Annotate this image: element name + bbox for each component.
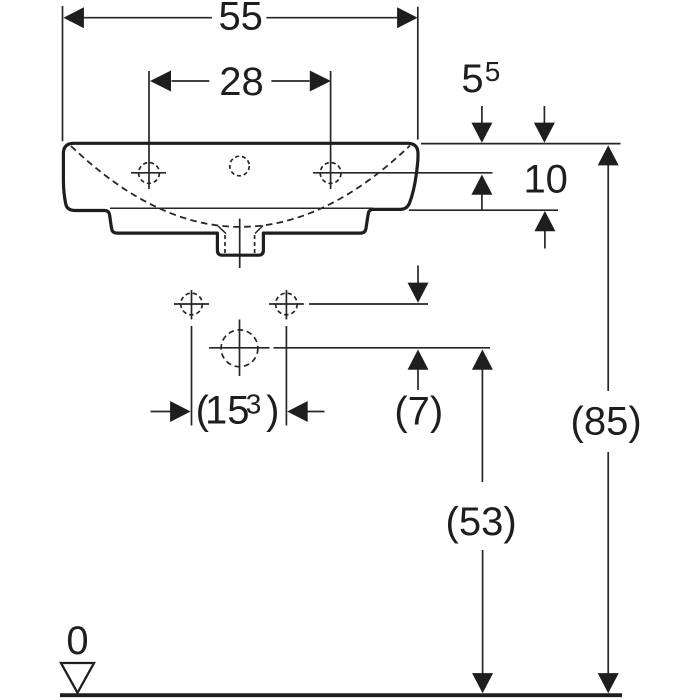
svg-text:(85): (85) [571, 399, 642, 443]
svg-text:): ) [266, 389, 279, 433]
svg-text:55: 55 [218, 0, 263, 38]
svg-text:5: 5 [485, 56, 501, 87]
svg-text:(7): (7) [394, 390, 443, 434]
svg-text:10: 10 [523, 157, 568, 201]
svg-text:28: 28 [219, 60, 264, 104]
svg-text:3: 3 [246, 389, 262, 420]
svg-text:15: 15 [205, 389, 250, 433]
svg-text:5: 5 [461, 57, 483, 101]
svg-text:(53): (53) [446, 500, 517, 544]
svg-text:0: 0 [66, 619, 88, 663]
